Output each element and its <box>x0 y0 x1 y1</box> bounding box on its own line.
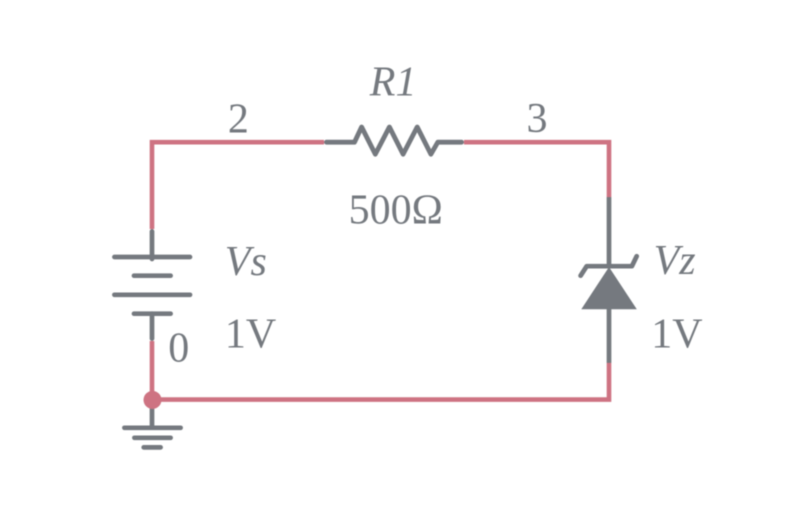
svg-text:3: 3 <box>527 96 548 142</box>
resistor R1 <box>326 127 461 154</box>
svg-text:R1: R1 <box>369 60 417 106</box>
svg-text:2: 2 <box>228 97 249 143</box>
battery Vs <box>114 231 190 338</box>
ground <box>124 400 180 448</box>
svg-text:Vs: Vs <box>225 239 267 285</box>
junction node 0 dot <box>144 391 162 409</box>
zener diode Vz <box>581 197 637 363</box>
svg-text:Vz: Vz <box>654 238 696 284</box>
wire node3 top-right (resistor right to zener top) <box>464 142 609 197</box>
wire node0 bottom horizontal and zener bottom <box>152 363 609 400</box>
wire node0 battery bottom to junction <box>150 341 155 400</box>
svg-text:1V: 1V <box>225 311 276 357</box>
svg-text:1V: 1V <box>651 311 702 357</box>
wire node2 top-left (corner from battery top to resistor left) <box>152 142 324 229</box>
svg-text:0: 0 <box>168 326 189 372</box>
svg-text:500Ω: 500Ω <box>349 187 443 233</box>
